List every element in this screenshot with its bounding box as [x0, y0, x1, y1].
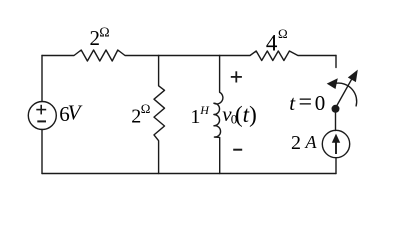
resistor R2 vertical branch — [154, 56, 165, 174]
svg-text:=: = — [299, 90, 313, 116]
svg-text:2: 2 — [131, 106, 141, 128]
svg-text:2: 2 — [291, 132, 301, 154]
svg-text:Ω: Ω — [278, 26, 288, 41]
switch arc arrowhead — [327, 78, 338, 89]
svg-text:1: 1 — [190, 106, 200, 128]
switch motion arc — [337, 83, 357, 106]
wire current source to bottom — [335, 158, 337, 174]
svg-text:Ω: Ω — [99, 25, 109, 40]
wire right stub top — [335, 56, 337, 68]
wire switch to current source — [335, 110, 337, 131]
voltage source minus sign — [37, 120, 46, 122]
svg-text:H: H — [199, 103, 210, 117]
switch pivot node dot — [332, 105, 340, 113]
svg-text:4: 4 — [266, 30, 278, 55]
wire left top — [41, 56, 43, 102]
svg-text:Ω: Ω — [141, 101, 151, 116]
current source I1 circle — [322, 130, 349, 157]
voltage source plus sign — [36, 109, 46, 111]
polarity minus below v0 — [233, 149, 242, 151]
polarity plus above v0 — [231, 76, 242, 78]
svg-text:V: V — [68, 100, 83, 124]
svg-text:(t): (t) — [235, 102, 257, 127]
switch blade — [336, 77, 353, 108]
inductor L1 branch — [214, 56, 223, 174]
switch blade arrowhead — [348, 70, 358, 83]
wire bottom — [42, 173, 336, 175]
svg-text:t: t — [289, 91, 296, 115]
wire left bottom — [41, 130, 43, 174]
svg-text:0: 0 — [315, 91, 326, 115]
wire top with resistor R1 zigzag — [42, 50, 336, 61]
current source arrow head — [332, 134, 340, 143]
voltage source V1 circle — [28, 102, 56, 130]
current source arrow shaft — [335, 141, 337, 155]
svg-text:A: A — [305, 132, 318, 152]
